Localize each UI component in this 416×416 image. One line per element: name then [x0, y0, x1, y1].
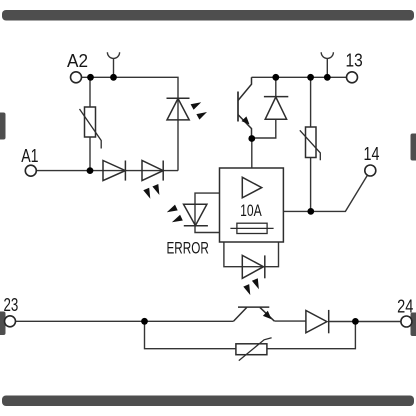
svg-text:10A: 10A	[240, 202, 262, 220]
svg-text:24: 24	[397, 295, 413, 316]
svg-text:A1: A1	[21, 145, 38, 166]
svg-text:23: 23	[4, 294, 19, 315]
svg-text:13: 13	[346, 50, 363, 71]
svg-text:ERROR: ERROR	[167, 238, 209, 257]
svg-text:14: 14	[364, 143, 380, 164]
svg-text:A2: A2	[67, 50, 88, 71]
